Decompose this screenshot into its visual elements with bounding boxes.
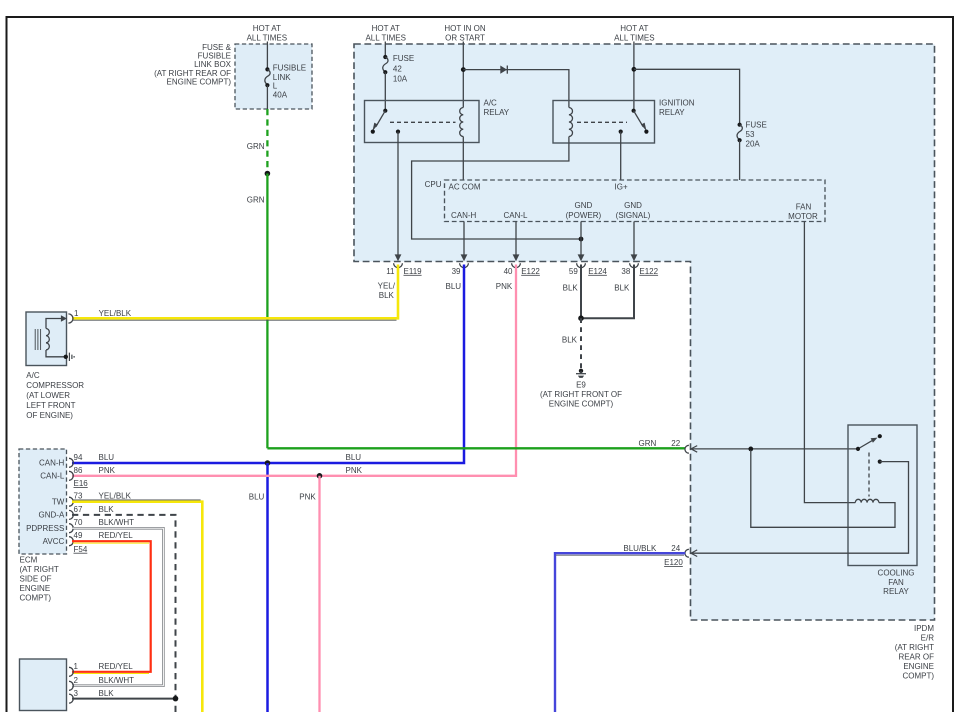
junction at ignition feed (632, 67, 637, 72)
CPU box (dashed) (445, 180, 826, 222)
node HOT AT ALL TIMES (ignition feed) (614, 24, 654, 42)
wire ignition relay output to IG+ (620, 132, 622, 180)
fuse 42 10A (383, 54, 415, 83)
svg-text:E122: E122 (639, 267, 658, 276)
A/C relay switch (371, 109, 400, 134)
ECM pin GND-A 67 (39, 505, 115, 520)
wire YEL/BLK pin 11 to A/C compressor (72, 265, 398, 321)
svg-text:BLK: BLK (99, 505, 115, 514)
svg-text:3: 3 (74, 689, 79, 698)
A/C compressor pin 1 (61, 309, 132, 323)
svg-text:PNK: PNK (99, 466, 116, 475)
svg-text:HOT AT: HOT AT (372, 24, 400, 33)
svg-text:BLK: BLK (614, 284, 630, 293)
ECM pin CAN-H 94 (39, 453, 114, 468)
node GND (POWER) (566, 201, 602, 220)
svg-text:LINK: LINK (273, 73, 291, 82)
svg-text:ALL TIMES: ALL TIMES (365, 33, 405, 42)
svg-text:38: 38 (621, 267, 630, 276)
wire PNK vertical to bottom (318, 476, 320, 712)
svg-text:CPU: CPU (425, 180, 442, 189)
junction BLK pin3 (173, 696, 179, 702)
wire into fuse 42 (384, 42, 386, 58)
ECM pin TW 73 (52, 492, 132, 507)
ignition relay switch (619, 109, 649, 134)
wire YEL/BLK TW to bottom (72, 500, 202, 712)
wire BLK sensor pin 3 to ground run (72, 698, 176, 700)
svg-text:COMPRESSOR: COMPRESSOR (26, 381, 84, 390)
svg-text:20A: 20A (746, 140, 761, 149)
wire GND(SIGNAL) to pin 38 (633, 222, 635, 255)
svg-text:(POWER): (POWER) (566, 211, 602, 220)
A/C relay actuation dashed link (390, 121, 456, 123)
junction PNK wire (317, 473, 323, 479)
svg-text:CAN-H: CAN-H (39, 459, 65, 468)
svg-text:GND-A: GND-A (39, 511, 65, 520)
svg-text:E9: E9 (576, 380, 586, 389)
svg-text:ALL TIMES: ALL TIMES (247, 33, 287, 42)
svg-text:94: 94 (74, 453, 83, 462)
svg-text:FUSE: FUSE (393, 54, 414, 63)
svg-text:ENGINE: ENGINE (903, 662, 934, 671)
svg-text:39: 39 (452, 267, 461, 276)
wire fuse 42 to A/C relay switch (384, 72, 386, 111)
svg-text:2: 2 (74, 676, 79, 685)
cooling fan relay actuation dashed link (868, 453, 870, 497)
svg-text:E120: E120 (664, 558, 683, 567)
svg-text:49: 49 (74, 531, 83, 540)
wire CAN-L CPU to pin 40 (515, 222, 517, 255)
junction BLU wire (265, 460, 271, 466)
svg-text:A/C: A/C (484, 99, 498, 108)
svg-text:IPDM: IPDM (914, 624, 934, 633)
fusible link L 40A (265, 64, 306, 110)
wire BLK pin 59 to ground junction (580, 265, 582, 319)
svg-text:E/R: E/R (921, 634, 935, 643)
svg-text:E122: E122 (521, 267, 540, 276)
svg-text:(AT RIGHT FRONT OF: (AT RIGHT FRONT OF (540, 390, 622, 399)
svg-text:40: 40 (504, 267, 513, 276)
svg-text:ENGINE COMPT): ENGINE COMPT) (167, 77, 232, 86)
svg-text:A/C: A/C (26, 371, 40, 380)
svg-text:OR START: OR START (445, 33, 485, 42)
svg-text:PDPRESS: PDPRESS (26, 524, 64, 533)
fuse 53 20A (737, 121, 767, 149)
cooling fan relay label (878, 569, 915, 597)
relay U1 A/C RELAY box (365, 101, 480, 143)
svg-text:BLK: BLK (562, 336, 578, 345)
svg-text:LEFT FRONT: LEFT FRONT (26, 401, 75, 410)
pin 38 connector E122 at IPDM edge (614, 254, 658, 292)
wire BLK dashed to ground E9 (580, 318, 582, 368)
svg-text:F54: F54 (74, 545, 88, 554)
fuse &amp; fusible link box label (154, 43, 232, 86)
svg-text:E16: E16 (74, 479, 89, 488)
svg-text:BLU: BLU (249, 493, 265, 502)
ECM label (20, 556, 59, 603)
relay U2 IGNITION RELAY box (553, 101, 655, 144)
svg-text:E124: E124 (588, 267, 607, 276)
ECM pin CAN-L 86 (40, 466, 115, 481)
svg-text:L: L (273, 82, 278, 91)
svg-text:BLK/WHT: BLK/WHT (99, 676, 135, 685)
svg-text:ALL TIMES: ALL TIMES (614, 33, 654, 42)
svg-text:YEL/BLK: YEL/BLK (99, 309, 132, 318)
IPDM E/R label (895, 624, 935, 681)
svg-text:ENGINE: ENGINE (20, 584, 51, 593)
svg-text:TW: TW (52, 498, 65, 507)
wire BLU vertical to bottom (266, 463, 269, 712)
svg-text:GRN: GRN (639, 439, 657, 448)
svg-text:BLU/BLK: BLU/BLK (623, 544, 657, 553)
junction on GND(POWER) wire (579, 237, 584, 242)
svg-text:FAN: FAN (796, 203, 812, 212)
wire BLU pin 39 to CAN-H (72, 265, 464, 464)
wire GRN solid vertical (266, 174, 268, 449)
sensor pin 3 (69, 689, 114, 703)
pin 24 connector E120 at IPDM edge (623, 544, 697, 567)
wire GRN dashed segment (266, 109, 268, 174)
svg-text:CAN-H: CAN-H (451, 211, 477, 220)
svg-text:BLK: BLK (379, 291, 395, 300)
wire relay output to pin 24 (691, 462, 909, 554)
svg-text:PNK: PNK (299, 493, 316, 502)
junction internal GRN line (748, 447, 753, 452)
wire to fuse 53 (634, 69, 740, 124)
svg-text:BLU: BLU (346, 453, 362, 462)
A/C relay coil (460, 108, 464, 137)
wire GRN horizontal to IPDM pin 22 (267, 447, 685, 449)
wire FAN MOTOR to relay coil (804, 222, 855, 503)
svg-text:COMPT): COMPT) (902, 672, 934, 681)
wire diode branch to ignition relay coil (463, 70, 569, 108)
sensor pin 1 (69, 662, 133, 677)
svg-text:11: 11 (386, 267, 395, 276)
junction BLK ground wires (578, 315, 584, 321)
ECM pin PDPRESS 70 (26, 518, 134, 533)
svg-text:(AT LOWER: (AT LOWER (26, 391, 70, 400)
refrigerant pressure sensor box (20, 659, 67, 711)
svg-text:PNK: PNK (346, 466, 363, 475)
svg-text:24: 24 (671, 544, 680, 553)
cooling fan relay switch (856, 434, 882, 464)
svg-text:CAN-L: CAN-L (40, 472, 65, 481)
wire BLK GND-A dashed (72, 515, 176, 712)
svg-text:BLK/WHT: BLK/WHT (99, 518, 135, 527)
svg-text:RED/YEL: RED/YEL (99, 531, 134, 540)
svg-text:53: 53 (746, 130, 755, 139)
svg-text:RED/YEL: RED/YEL (99, 662, 134, 671)
A/C compressor case ground (64, 353, 74, 361)
svg-text:40A: 40A (273, 91, 288, 100)
svg-text:1: 1 (74, 662, 79, 671)
svg-text:FUSIBLE: FUSIBLE (273, 64, 306, 73)
svg-text:HOT IN ON: HOT IN ON (444, 24, 485, 33)
svg-text:COOLING: COOLING (878, 569, 915, 578)
svg-text:OF ENGINE): OF ENGINE) (26, 411, 73, 420)
svg-text:1: 1 (74, 309, 79, 318)
node FAN MOTOR (788, 203, 818, 222)
wire BLK pin 38 to ground junction (583, 265, 634, 319)
svg-text:RELAY: RELAY (659, 108, 685, 117)
ECM box (dashed) (19, 449, 67, 554)
svg-text:22: 22 (671, 439, 680, 448)
svg-text:HOT AT: HOT AT (620, 24, 648, 33)
svg-text:(SIGNAL): (SIGNAL) (616, 211, 651, 220)
wire coil return to GRN line (751, 450, 895, 527)
svg-text:GRN: GRN (247, 142, 265, 151)
A/C compressor box (26, 312, 67, 366)
A/C compressor label (26, 371, 84, 420)
pin 40 connector E122 at IPDM edge (496, 254, 541, 291)
svg-text:ECM: ECM (20, 556, 38, 565)
svg-text:FAN: FAN (888, 578, 904, 587)
svg-text:42: 42 (393, 64, 402, 73)
A/C compressor clutch coil (35, 319, 64, 357)
svg-text:73: 73 (74, 492, 83, 501)
svg-text:YEL/: YEL/ (378, 281, 396, 290)
svg-text:SIDE OF: SIDE OF (20, 575, 52, 584)
wire HOT IN ON down to A/C relay coil (462, 42, 464, 108)
svg-text:FUSE: FUSE (746, 121, 767, 130)
wire HOT AT ALL TIMES down to ignition relay switch (633, 42, 635, 111)
svg-text:RELAY: RELAY (883, 587, 909, 596)
wire GND(POWER) to pin 59 (580, 222, 582, 255)
pin 22 connector at IPDM edge (671, 439, 697, 453)
svg-text:YEL/BLK: YEL/BLK (99, 492, 132, 501)
sensor pin 2 (69, 676, 134, 691)
svg-text:ENGINE COMPT): ENGINE COMPT) (549, 400, 614, 409)
wire fuse 53 to B+ (739, 140, 741, 180)
svg-text:MOTOR: MOTOR (788, 212, 818, 221)
svg-text:AVCC: AVCC (43, 537, 65, 546)
ground E9 (540, 369, 622, 409)
node HOT IN ON OR START (444, 24, 485, 42)
svg-text:COMPT): COMPT) (20, 594, 52, 603)
wire A/C relay coil to AC COM (462, 137, 464, 181)
svg-text:CAN-L: CAN-L (504, 211, 529, 220)
pin 39 connector at IPDM edge (446, 254, 469, 291)
fuse box (dashed) (235, 44, 312, 109)
ECM pin AVCC 49 (43, 531, 134, 546)
junction at diode branch (461, 67, 466, 72)
svg-text:E119: E119 (404, 267, 423, 276)
wire ignition relay coil return to GND(POWER) (412, 137, 580, 240)
svg-text:GND: GND (575, 201, 593, 210)
junction on GRN wire (265, 171, 271, 177)
svg-text:(AT RIGHT: (AT RIGHT (20, 565, 59, 574)
wire internal from pin 22 to cooling fan relay (691, 448, 858, 450)
pin 11 connector E119 at IPDM edge (378, 254, 423, 300)
svg-text:RELAY: RELAY (484, 108, 510, 117)
svg-text:59: 59 (569, 267, 578, 276)
svg-text:BLU: BLU (446, 282, 462, 291)
cooling fan relay coil (855, 499, 879, 502)
pin 59 connector E124 at IPDM edge (563, 254, 608, 292)
svg-text:BLU: BLU (99, 453, 115, 462)
svg-text:70: 70 (74, 518, 83, 527)
svg-text:(AT RIGHT: (AT RIGHT (895, 643, 934, 652)
svg-text:BLK: BLK (563, 284, 579, 293)
wire CAN-H CPU to pin 39 (463, 222, 465, 255)
IPDM E/R module outline (L-shaped dashed box) (354, 44, 935, 620)
diode D1 (500, 66, 507, 74)
svg-text:REAR OF: REAR OF (898, 653, 934, 662)
cooling fan relay box (848, 425, 917, 566)
wire RED/YEL AVCC to sensor pin 1 (72, 541, 151, 673)
svg-text:GND: GND (624, 201, 642, 210)
wire A/C relay output to pin 11 (397, 132, 399, 255)
svg-text:AC COM: AC COM (449, 182, 481, 191)
node GND (SIGNAL) (616, 201, 651, 220)
ignition relay coil (569, 108, 573, 137)
svg-text:BLK: BLK (99, 689, 115, 698)
svg-text:IG+: IG+ (615, 182, 628, 191)
ignition relay actuation dashed link (577, 121, 627, 123)
wire into fusible link (266, 42, 268, 70)
svg-text:GRN: GRN (247, 196, 265, 205)
svg-text:PNK: PNK (496, 282, 513, 291)
wire BLU/BLK pin 24 to bottom (555, 553, 685, 712)
wire BLK/WHT PDPRESS to sensor pin 2 (72, 528, 163, 686)
node HOT AT ALL TIMES (left, fusible link feed) (247, 24, 287, 42)
svg-text:HOT AT: HOT AT (253, 24, 281, 33)
svg-text:86: 86 (74, 466, 83, 475)
svg-text:10A: 10A (393, 74, 408, 83)
node HOT AT ALL TIMES (fuse 42 feed) (365, 24, 405, 42)
svg-text:67: 67 (74, 505, 83, 514)
svg-text:IGNITION: IGNITION (659, 99, 695, 108)
wire PNK pin 40 to CAN-L (72, 265, 516, 476)
